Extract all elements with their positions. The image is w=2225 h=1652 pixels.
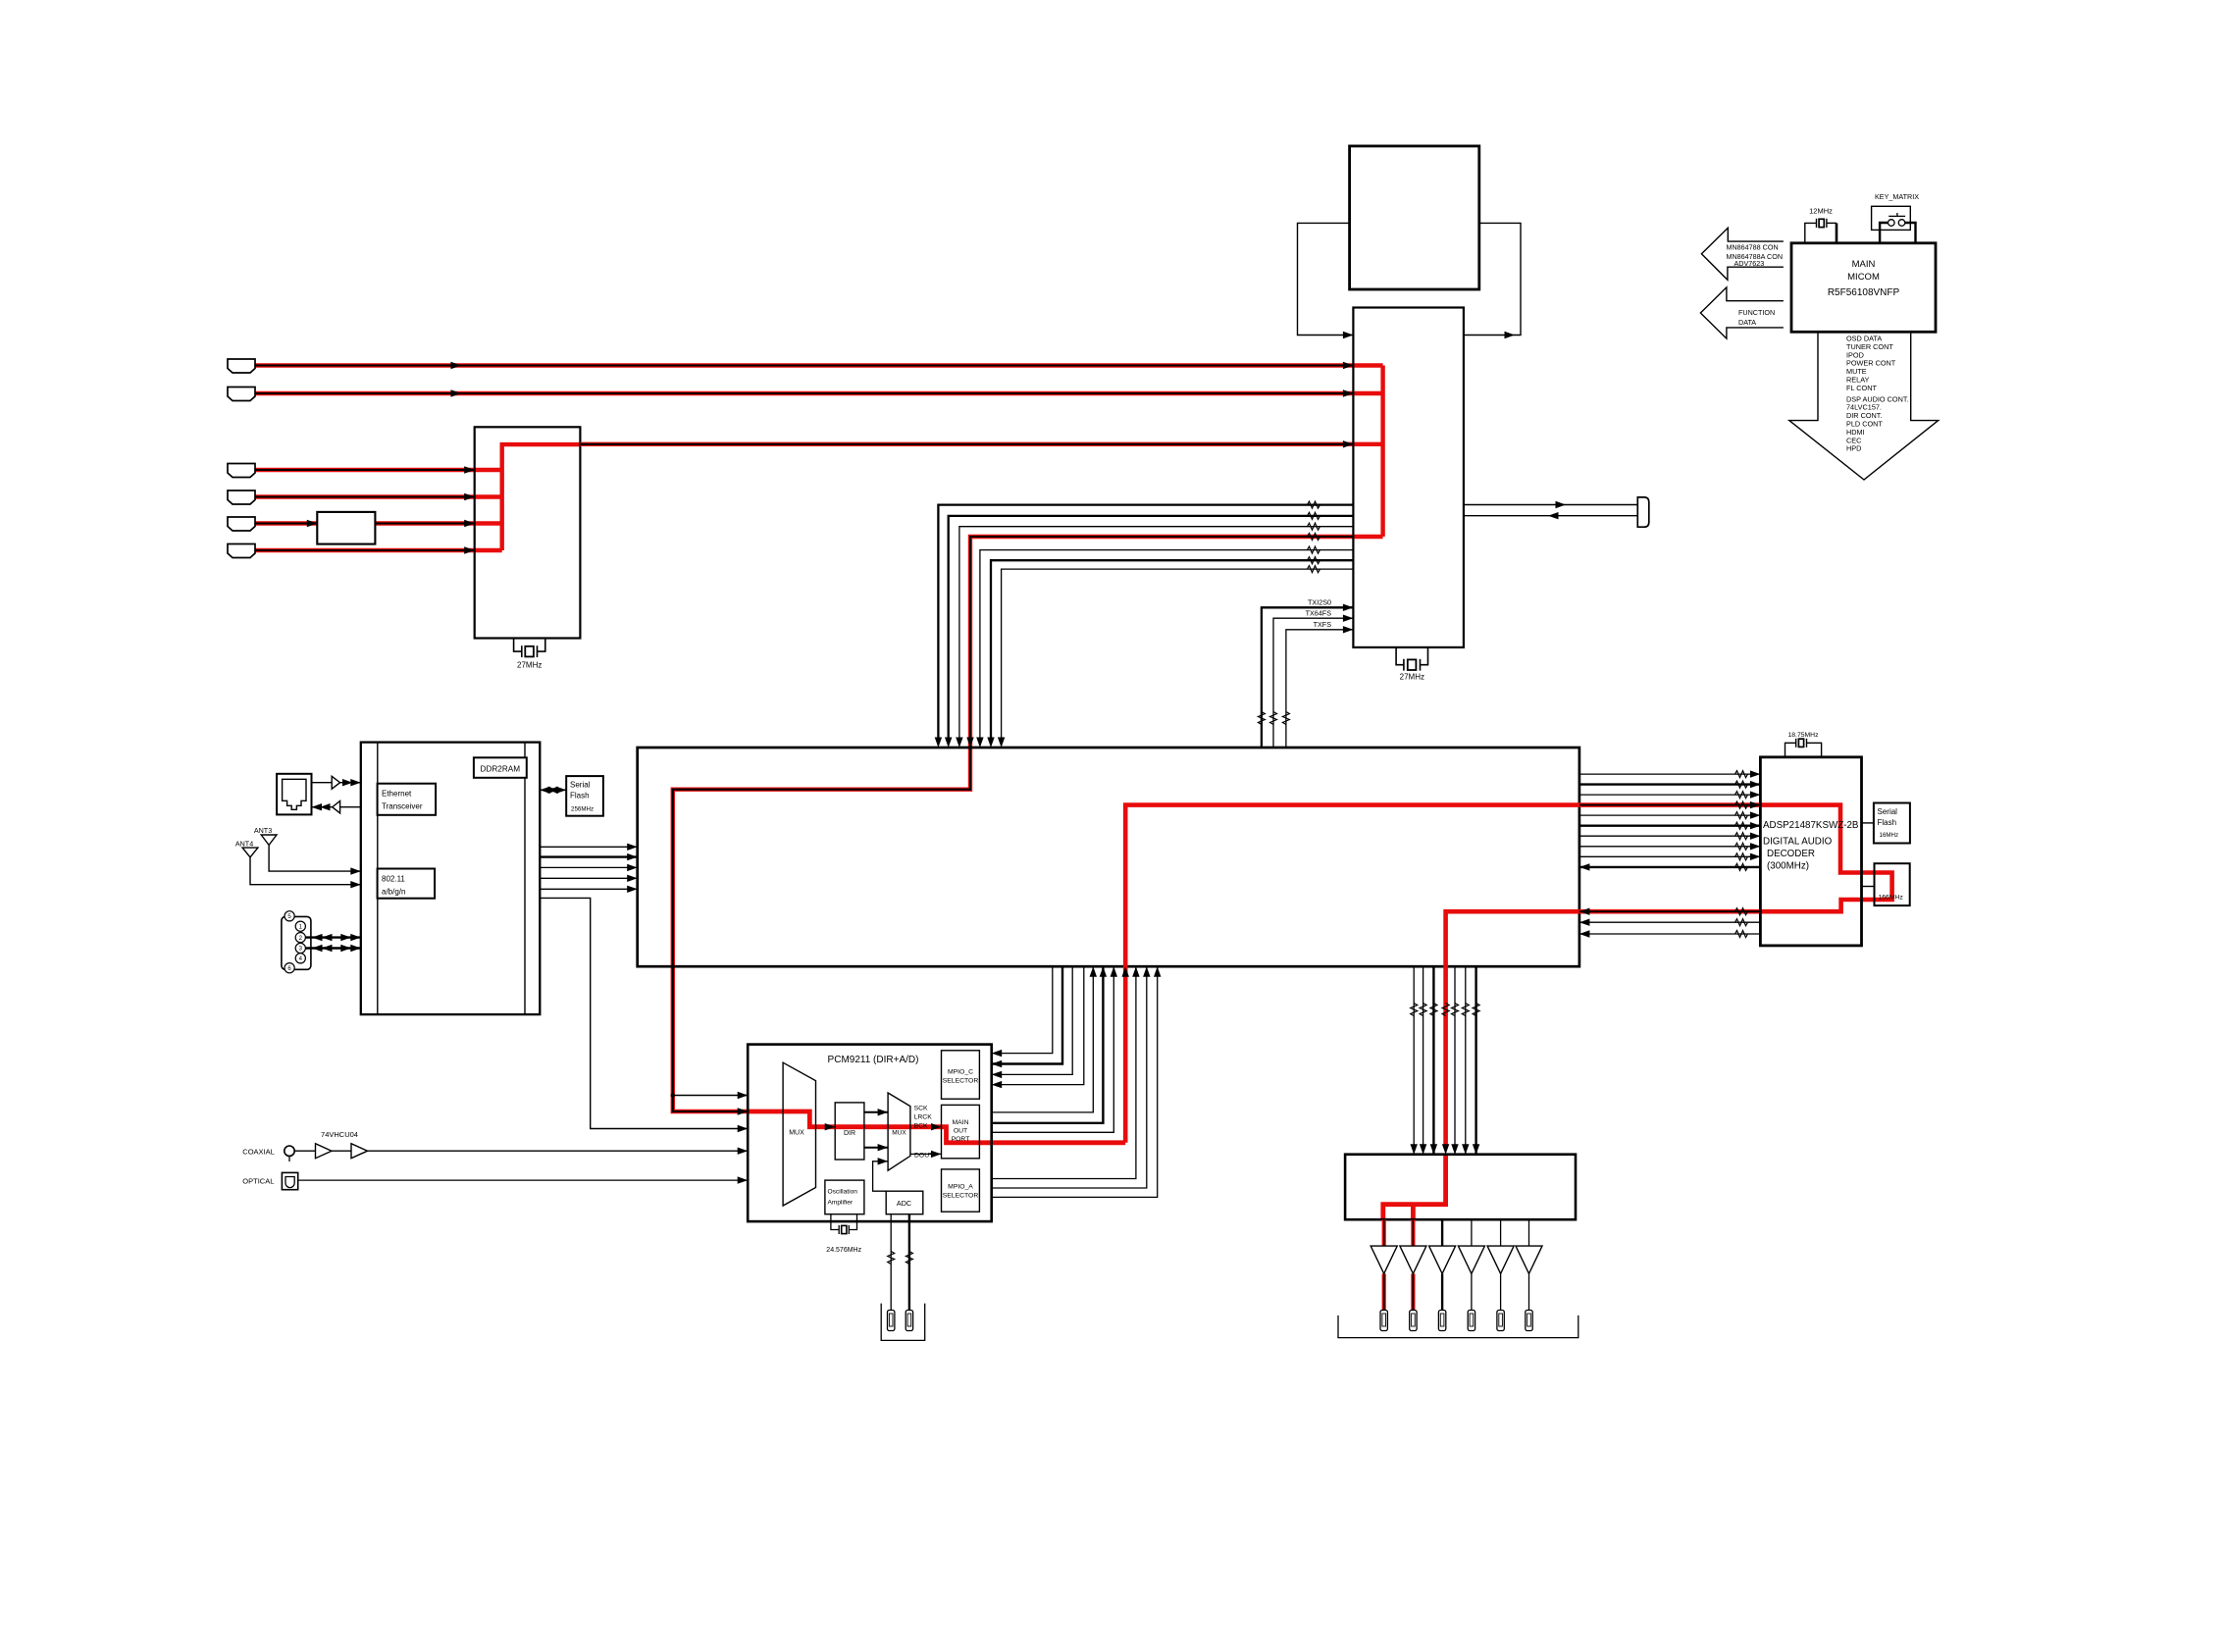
Ethernet Transceiver box: [378, 784, 437, 815]
svg-text:DIR: DIR: [844, 1130, 855, 1137]
wire coax buffer to PCM: [368, 1150, 749, 1152]
MPIO_C SELECTOR box: [942, 1051, 980, 1099]
wire bus line3: [959, 527, 1354, 742]
wire bus line5: [980, 550, 1354, 742]
red path inside ADSP to 166MHz box and back: [1760, 805, 1891, 912]
HDMI connector J4: [228, 490, 255, 504]
svg-text:ADC: ADC: [897, 1199, 911, 1208]
wire bus line7: [1002, 569, 1354, 742]
bus SoC to ADSP line1: [1579, 773, 1761, 775]
MAIN OUT LRCK wire thick: [992, 966, 1104, 1123]
wire bus line2: [949, 516, 1354, 742]
wire: HDMI IN6 to switch (red): [255, 548, 475, 552]
op-amp A2: [1400, 1246, 1426, 1273]
arrows DIR to MUX2: [864, 1111, 888, 1113]
crystal X1 27MHz below switch: [514, 639, 545, 658]
bus line10 return thick: [1579, 866, 1761, 868]
arrow into equalizer box: [307, 520, 318, 527]
buffer tx: [332, 776, 339, 789]
svg-text:HPD: HPD: [1846, 444, 1861, 453]
MAIN OUT SCK wire: [992, 966, 1094, 1112]
svg-text:MUX: MUX: [789, 1130, 804, 1137]
HDMI connector J5: [228, 517, 255, 531]
op-amp A3: [1429, 1246, 1456, 1273]
MAIN OUT PORT box: [942, 1105, 980, 1158]
SoC to DAC wire 6: [1465, 966, 1467, 1154]
HDMI switch block U1: [475, 427, 581, 638]
ADSP block U5: [1760, 757, 1861, 946]
control signal list: [1846, 335, 1909, 453]
svg-text:PORT: PORT: [952, 1136, 970, 1143]
red path inside switch: [475, 444, 581, 550]
SoC to DAC wire 5: [1454, 966, 1456, 1154]
svg-text:KEY_MATRIX: KEY_MATRIX: [1875, 192, 1919, 201]
svg-text:18.75MHz: 18.75MHz: [1788, 732, 1820, 739]
SoC to DAC wire 2: [1423, 966, 1424, 1154]
svg-text:Ethernet: Ethernet: [382, 790, 412, 799]
svg-text:12MHz: 12MHz: [1809, 207, 1833, 216]
crystal X5 24.576MHz: [831, 1214, 857, 1234]
166MHz box: [1875, 863, 1910, 905]
HDMI repeater block U2: [1353, 308, 1464, 647]
bracket under analog connectors: [881, 1304, 925, 1341]
svg-text:DATA: DATA: [1738, 318, 1756, 327]
svg-text:16MHz: 16MHz: [1880, 832, 1899, 839]
svg-text:COAXIAL: COAXIAL: [242, 1148, 275, 1157]
wire: HDMI IN1 to HDMI switch (red highlight): [255, 363, 1353, 367]
HDMI Tx square block above: [1350, 146, 1479, 289]
svg-text:Flash: Flash: [1878, 818, 1897, 827]
op-amp A1: [1371, 1246, 1397, 1273]
op-amp A6: [1516, 1246, 1542, 1273]
main SoC block U3: [638, 748, 1579, 966]
MUX2 trapezoid: [888, 1093, 910, 1170]
crystal X4 18.75MHz: [1785, 739, 1822, 757]
wire: HDMI IN3 to switch (red): [255, 468, 475, 472]
Serial Flash 16MHz box: [1874, 803, 1910, 844]
svg-text:a/b/g/n: a/b/g/n: [382, 888, 405, 897]
svg-text:Transceiver: Transceiver: [382, 802, 423, 811]
SoC to DAC wire 7 thick: [1475, 966, 1476, 1154]
MPIO_A wire 1: [992, 966, 1136, 1178]
red arrows into DIR and MAIN OUT PORT: [825, 1123, 836, 1130]
optical TOSLINK connector: [282, 1172, 297, 1189]
svg-text:TXI2S0: TXI2S0: [1308, 598, 1331, 607]
PCM9211 block U6: [748, 1045, 992, 1222]
amp output lines to RCA jacks: [1382, 1273, 1386, 1310]
arrows IN3-IN6 into switch: [464, 466, 475, 473]
svg-text:Serial: Serial: [570, 781, 591, 790]
wire: HDMI IN5 to equalizer box (red): [255, 521, 317, 525]
HDMI connector J2: [228, 387, 255, 401]
bus line7: [1579, 835, 1761, 837]
svg-text:27MHz: 27MHz: [1400, 673, 1424, 682]
wire bus line1: [938, 505, 1353, 742]
ADC box: [886, 1191, 923, 1214]
coaxial RCA connector: [285, 1146, 294, 1156]
svg-text:PCM9211 (DIR+A/D): PCM9211 (DIR+A/D): [828, 1055, 919, 1065]
svg-text:DOUT: DOUT: [914, 1153, 933, 1160]
MPIO_A wire 2: [992, 966, 1147, 1188]
svg-text:LRCK: LRCK: [914, 1114, 933, 1121]
HDMI connector J1: [228, 359, 255, 373]
svg-text:(300MHz): (300MHz): [1767, 861, 1809, 872]
MPIO_C input wire 4: [992, 966, 1084, 1084]
svg-text:27MHz: 27MHz: [517, 661, 542, 670]
MICOM block U10 R5F56108VNFP: [1791, 243, 1936, 332]
SoC to DAC wire 3 thick: [1432, 966, 1434, 1154]
red return route ADSP to SoC to DAC: [1579, 909, 1761, 914]
loop wire: right side repeater-square: [1464, 223, 1521, 335]
wire module to RJ45 (rx): [340, 806, 361, 808]
RJ45 jack: [277, 774, 311, 815]
Oscillation Amplifier box: [825, 1180, 864, 1214]
amp input stubs: [1382, 1219, 1386, 1246]
svg-text:MN864788 CON: MN864788 CON: [1727, 243, 1779, 252]
MAIN OUT BCK wire: [992, 966, 1114, 1132]
arrow IN2 into HDMI repeater block: [1343, 389, 1354, 396]
svg-text:FUNCTION: FUNCTION: [1738, 308, 1775, 317]
bus line5: [1579, 814, 1761, 816]
DIR box: [835, 1103, 864, 1160]
svg-text:802.11: 802.11: [382, 875, 405, 884]
loop wire: left side square-repeater: [1298, 223, 1354, 335]
wire: HDMI IN4 to switch (red): [255, 494, 475, 498]
inner partition left: [377, 743, 379, 1015]
svg-text:OPTICAL: OPTICAL: [242, 1177, 274, 1186]
ADC output line R thick: [908, 1214, 910, 1311]
analog in connector R: [906, 1311, 912, 1331]
svg-text:Serial: Serial: [1878, 807, 1898, 816]
big down block arrow from MICOM: [1789, 332, 1939, 480]
block arrow left: FUNCTION DATA: [1700, 287, 1784, 338]
inner partition right: [524, 743, 526, 1015]
svg-text:SELECTOR: SELECTOR: [943, 1193, 979, 1200]
wire: HDMI IN2 to HDMI switch (red highlight): [255, 391, 1353, 395]
module outer block U4: [361, 743, 541, 1015]
arrow on IN2 wire: [451, 389, 462, 396]
svg-text:MUX: MUX: [892, 1130, 906, 1137]
wire TXFS: [1286, 630, 1354, 748]
red path PCM input to DIR to MAIN OUT PORT: [748, 1111, 941, 1127]
op-amp A4: [1458, 1246, 1484, 1273]
arrow IN1 into HDMI repeater block: [1343, 362, 1354, 369]
wire ADSP to serial flash: [1862, 822, 1874, 824]
svg-text:Flash: Flash: [570, 792, 590, 800]
arrow on IN1 wire: [451, 362, 462, 369]
buffer 74VHCU04 b: [351, 1144, 368, 1159]
analog in connector L: [888, 1311, 895, 1331]
wire: switch to HDMI repeater (red): [580, 442, 1353, 446]
module to SoC wire 3: [540, 866, 637, 868]
Serial Flash 256MHz box: [566, 776, 603, 816]
equalizer box on IN5: [317, 512, 375, 544]
DE9 serial connector: [282, 916, 311, 969]
svg-text:ANT3: ANT3: [254, 826, 272, 835]
wire coax to buffers: [294, 1150, 315, 1152]
HDMI connector J3: [228, 464, 255, 478]
RCA output jacks: [1380, 1311, 1532, 1331]
resistor on red DAC wire: [1442, 1004, 1449, 1016]
key switch symbol: [1889, 213, 1906, 226]
svg-text:Amplifier: Amplifier: [828, 1200, 854, 1207]
KEY_MATRIX box: [1872, 206, 1911, 230]
serial bus wire pin3: [305, 947, 360, 949]
resistor on red bus line4: [1308, 534, 1320, 541]
wire RJ45 to module (tx): [312, 782, 333, 784]
bus line8: [1579, 846, 1761, 848]
svg-text:24.576MHz: 24.576MHz: [826, 1247, 861, 1254]
return wire 2: [1579, 921, 1761, 923]
block arrow left: MN864788 CON: [1701, 228, 1784, 280]
wire optical to PCM: [298, 1179, 749, 1181]
svg-text:MPIO_C: MPIO_C: [948, 1069, 973, 1076]
802.11 box: [378, 869, 436, 899]
svg-text:DDR2RAM: DDR2RAM: [481, 765, 521, 774]
red route: repeater to main SoC (bus line4) down into PCM inputs: [673, 537, 1383, 1111]
bus line4 red: SoC to ADSP I2S (red highlight): [1125, 805, 1760, 1143]
svg-text:MAIN: MAIN: [1852, 259, 1876, 270]
module to SoC wire 5: [540, 888, 637, 890]
buffer rx: [333, 801, 340, 813]
bus line3: [1579, 794, 1761, 796]
HDMI connector J6: [228, 544, 255, 558]
svg-text:256MHz: 256MHz: [571, 806, 594, 813]
MPIO_C input wire 1: [992, 966, 1053, 1053]
ADC to MUX2 elbow: [873, 1162, 889, 1191]
bus line2 thick: [1579, 783, 1761, 785]
PCM input1 wire from SoC (black branch): [673, 1095, 748, 1097]
return wire 3: [1579, 933, 1761, 935]
wire TXI2S0: [1262, 607, 1354, 748]
wire TX64FS: [1273, 618, 1353, 748]
wire: DDC connector lower return: [1464, 515, 1637, 517]
bracket under RCA jacks: [1338, 1316, 1578, 1338]
svg-text:TXFS: TXFS: [1314, 620, 1332, 629]
bidirectional wire module-serial flash: [540, 789, 566, 791]
bus line6 thick: [1579, 825, 1761, 827]
MUX1 trapezoid: [783, 1062, 815, 1206]
crystal X2 27MHz below repeater: [1396, 647, 1427, 671]
wire: repeater to DDC connector upper: [1464, 504, 1637, 506]
svg-text:MAIN: MAIN: [953, 1119, 969, 1126]
PCM input2 red arrow: [738, 1108, 749, 1114]
svg-text:Oscillation: Oscillation: [828, 1189, 858, 1196]
key matrix wires to MICOM: [1880, 223, 1888, 243]
bus line9: [1579, 855, 1761, 857]
svg-text:MPIO_A: MPIO_A: [948, 1184, 973, 1191]
svg-text:DECODER: DECODER: [1767, 849, 1815, 859]
svg-text:SCK: SCK: [914, 1106, 928, 1112]
buffer 74VHCU04 a: [316, 1144, 333, 1159]
red path inside repeater: [1353, 366, 1382, 538]
svg-text:OUT: OUT: [954, 1128, 967, 1135]
DAC block U7: [1345, 1155, 1576, 1220]
svg-text:R5F56108VNFP: R5F56108VNFP: [1828, 287, 1900, 298]
crystal X3 12MHz: [1805, 219, 1837, 243]
serial bus wire pin2: [305, 936, 360, 938]
module to SoC wire 2 (thick): [540, 855, 637, 857]
wire bus line6 (thick): [991, 560, 1353, 742]
wire module down to PCM9211 input3: [540, 898, 748, 1128]
svg-text:TX64FS: TX64FS: [1306, 609, 1332, 618]
svg-text:DIGITAL AUDIO: DIGITAL AUDIO: [1763, 837, 1833, 848]
DDR2RAM label box: [474, 757, 527, 778]
MPIO_A wire 3: [992, 966, 1158, 1197]
svg-text:BCK: BCK: [914, 1123, 928, 1130]
ADC output line L: [890, 1214, 892, 1311]
wire: equalizer box to switch (red): [375, 521, 474, 525]
module to SoC wire 4: [540, 877, 637, 879]
svg-text:MICOM: MICOM: [1847, 272, 1880, 283]
svg-text:74VHCU04: 74VHCU04: [321, 1130, 358, 1139]
svg-text:166MHz: 166MHz: [1879, 895, 1904, 902]
svg-text:ANT4: ANT4: [235, 840, 253, 849]
SoC to DAC wire 1: [1413, 966, 1415, 1154]
connector plug symbol right of repeater: [1637, 497, 1649, 527]
svg-text:FL CONT: FL CONT: [1846, 384, 1877, 392]
wire ADSP to 166MHz box: [1862, 886, 1875, 888]
MPIO_C input wire 2 thick: [992, 966, 1062, 1063]
svg-text:SELECTOR: SELECTOR: [943, 1078, 979, 1085]
module to SoC wire 1: [540, 846, 637, 848]
MPIO_A SELECTOR box: [942, 1169, 980, 1212]
svg-text:ADV7623: ADV7623: [1734, 259, 1765, 268]
op-amp A5: [1487, 1246, 1514, 1273]
MPIO_C input wire 3: [992, 966, 1072, 1074]
svg-text:ADSP21487KSWZ-2B: ADSP21487KSWZ-2B: [1763, 820, 1859, 831]
DOUT wire to MAIN OUT PORT: [910, 1153, 942, 1155]
red path inside DAC block: [1383, 1155, 1446, 1220]
